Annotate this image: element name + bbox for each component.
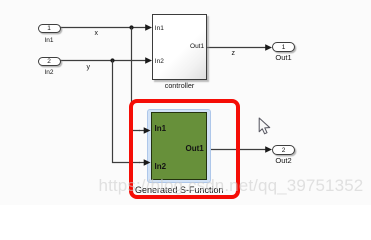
Outport block 2 bbox=[272, 145, 295, 155]
arrowhead Outport2 bbox=[265, 146, 272, 153]
S-Function port label Out1 bbox=[185, 145, 203, 154]
controller port label Out1 bbox=[190, 43, 204, 50]
wire stub into S-Function In2 bbox=[139, 162, 145, 164]
junction dot on y wire bbox=[110, 58, 114, 62]
Outport block 1 bbox=[272, 42, 295, 52]
controller port label In2 bbox=[155, 58, 164, 65]
label Out1 bbox=[272, 54, 296, 62]
selection halo of S-Function block bbox=[147, 109, 211, 184]
arrowhead S-Function In1 bbox=[144, 127, 151, 134]
controller port label In1 bbox=[155, 25, 164, 32]
wire branch x to S-Function In1 bbox=[132, 28, 141, 131]
junction dot on x wire bbox=[129, 25, 133, 29]
Generated S-Function block (green) bbox=[151, 112, 208, 180]
wire y (Inport2 to controller In2) bbox=[61, 60, 147, 62]
watermark bbox=[99, 176, 364, 196]
S-Function port label In1 bbox=[155, 125, 167, 134]
red highlight rectangle bbox=[129, 99, 240, 199]
signal label x bbox=[95, 30, 99, 38]
arrowhead controller In1 bbox=[145, 24, 152, 31]
arrowhead controller In2 bbox=[145, 57, 152, 64]
label Generated S-Function bbox=[134, 186, 224, 196]
signal label z bbox=[232, 50, 236, 58]
label controller bbox=[144, 82, 215, 90]
wire S-Function Out1 to Outport2 bbox=[207, 149, 266, 151]
label Out2 bbox=[272, 157, 296, 165]
wire branch y to S-Function In2 bbox=[113, 61, 141, 163]
arrowhead Outport1 bbox=[265, 44, 272, 51]
S-Function port label In2 bbox=[155, 163, 167, 172]
label In2 bbox=[38, 69, 60, 76]
controller block bbox=[152, 14, 207, 80]
signal label y bbox=[87, 64, 91, 72]
label In1 bbox=[38, 37, 60, 44]
wire stub into S-Function In1 bbox=[139, 130, 145, 132]
wire z (controller Out1 to Outport1) bbox=[207, 47, 266, 49]
arrowhead S-Function In2 bbox=[144, 159, 151, 166]
Inport block 2 bbox=[38, 57, 61, 66]
wire x (Inport1 to controller In1) bbox=[61, 27, 147, 29]
Inport block 1 bbox=[38, 24, 61, 33]
